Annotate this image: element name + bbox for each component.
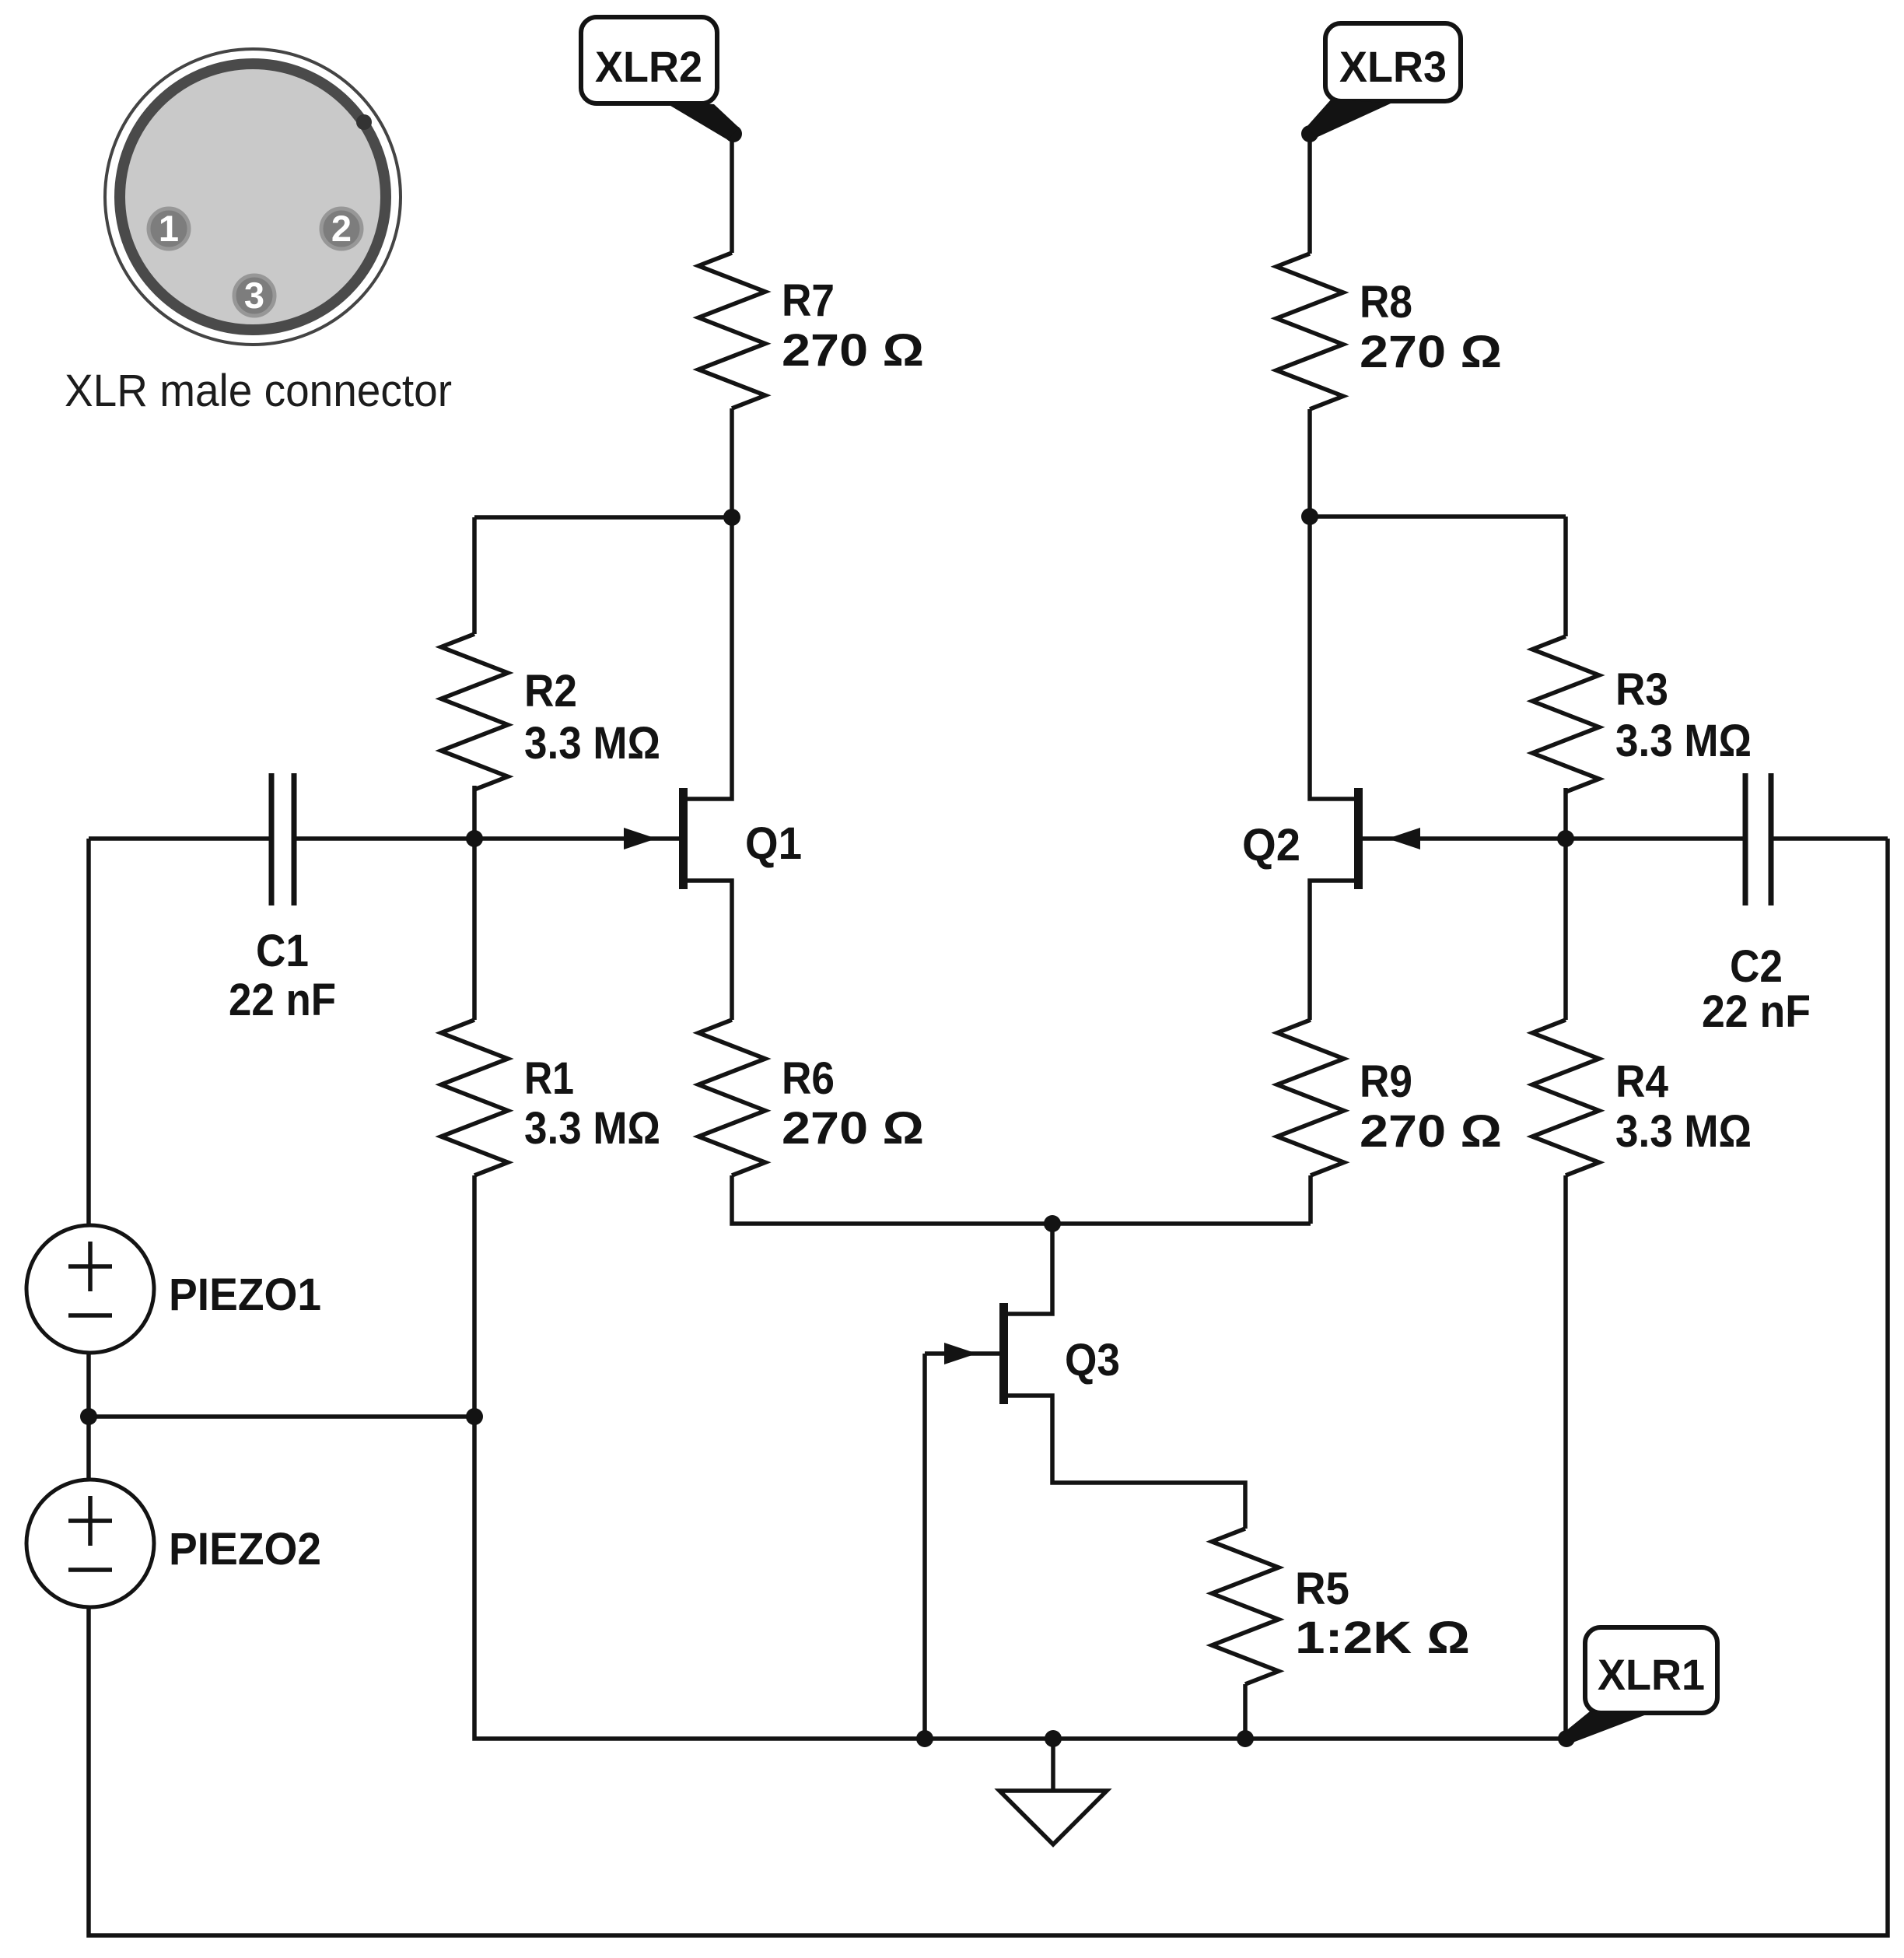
- svg-text:Q2: Q2: [1242, 820, 1300, 870]
- svg-text:R5: R5: [1295, 1564, 1349, 1614]
- svg-text:C1: C1: [256, 926, 309, 976]
- svg-text:2: 2: [331, 208, 352, 249]
- svg-text:XLR2: XLR2: [595, 42, 702, 91]
- svg-text:XLR male connector: XLR male connector: [65, 366, 452, 416]
- svg-text:3.3 MΩ: 3.3 MΩ: [1615, 1106, 1752, 1157]
- svg-text:Q1: Q1: [745, 818, 802, 869]
- svg-text:22 nF: 22 nF: [229, 975, 336, 1025]
- svg-text:XLR1: XLR1: [1598, 1650, 1705, 1699]
- svg-text:3.3 MΩ: 3.3 MΩ: [524, 1103, 660, 1154]
- svg-text:R6: R6: [782, 1053, 835, 1104]
- svg-text:Q3: Q3: [1065, 1335, 1120, 1385]
- svg-text:270 Ω: 270 Ω: [782, 1103, 924, 1154]
- svg-text:R9: R9: [1360, 1056, 1412, 1107]
- svg-text:R3: R3: [1615, 664, 1668, 715]
- svg-text:PIEZO1: PIEZO1: [169, 1270, 321, 1320]
- svg-text:22 nF: 22 nF: [1702, 986, 1811, 1037]
- svg-text:270 Ω: 270 Ω: [1360, 1106, 1502, 1157]
- svg-text:1: 1: [159, 208, 179, 249]
- svg-text:R1: R1: [524, 1053, 574, 1104]
- svg-text:R4: R4: [1615, 1056, 1668, 1107]
- svg-text:1:2K Ω: 1:2K Ω: [1295, 1613, 1470, 1663]
- svg-text:C2: C2: [1730, 941, 1783, 992]
- svg-text:270 Ω: 270 Ω: [782, 325, 924, 376]
- svg-text:R2: R2: [524, 666, 577, 716]
- svg-text:R8: R8: [1360, 277, 1412, 328]
- svg-text:3.3 MΩ: 3.3 MΩ: [524, 718, 660, 769]
- svg-text:PIEZO2: PIEZO2: [169, 1524, 321, 1574]
- svg-text:R7: R7: [782, 275, 835, 326]
- svg-text:XLR3: XLR3: [1339, 42, 1447, 91]
- svg-text:3: 3: [244, 275, 264, 316]
- svg-text:3.3 MΩ: 3.3 MΩ: [1615, 716, 1752, 766]
- svg-text:270 Ω: 270 Ω: [1360, 327, 1502, 377]
